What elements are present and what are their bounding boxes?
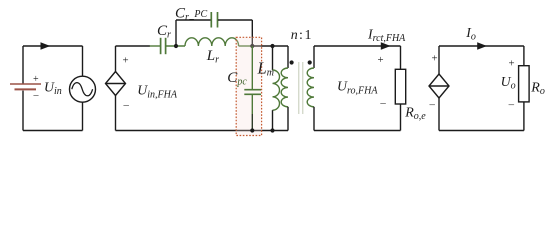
capacitor Cpc branch lower [251,95,253,114]
wire loop2 left upper [115,46,117,72]
dependent source diamond U_in,FHA [106,72,126,96]
arrow Irct,FHA [381,42,391,50]
transformer primary winding [281,68,288,107]
AC source sine wave [72,83,93,96]
transformer primary connector top [287,46,289,68]
transformer polarity dot primary [290,60,294,64]
svg-text:+: + [33,74,39,85]
dependent source diamond output [429,74,449,98]
parallel branch top wire left [176,19,211,21]
transformer secondary winding [307,68,314,107]
capacitor Cpc branch upper [251,46,253,89]
svg-text:–: – [379,97,386,109]
inductor Lm branch lower [272,110,274,130]
wire loop1 right lower [82,102,84,130]
wire loop1 bottom [23,130,83,132]
wire loop1 top [23,45,83,47]
resistor Ro [519,66,530,102]
wire green Lr to node [239,45,253,47]
battery DC source Uin [10,84,41,89]
svg-text:–: – [33,90,40,101]
AC source circle [70,76,96,102]
wire node to transformer [252,45,288,47]
wire loop2 top black segment [116,45,151,47]
transformer polarity dot secondary [308,60,312,64]
inductor Lm branch upper [272,46,274,70]
arrow current direction loop1 [41,42,51,50]
wire loop1 left upper [22,46,24,84]
svg-text:+: + [378,54,384,66]
capacitor Cr_PC [211,12,217,28]
wire secondary loop top [314,45,401,47]
transformer core lines [299,62,303,114]
wire right loop bottom [439,130,524,132]
capacitor Cr [161,38,166,54]
svg-text:–: – [508,99,515,111]
wire secondary bottom [314,130,401,132]
transformer secondary connector top [313,46,315,68]
wire right loop right upper [523,46,525,66]
svg-text:+: + [123,55,129,67]
capacitor Cpc plates [244,90,261,95]
node dot Lm top [270,44,274,48]
dashed box around Cpc [236,37,261,135]
node dot Lm bottom [270,128,274,132]
transformer secondary connector bottom [313,107,315,131]
svg-text:+: + [432,53,438,65]
node junction dot right [250,44,254,48]
transformer primary connector bottom [287,107,289,131]
svg-text:–: – [429,99,436,111]
svg-text:n:1: n:1 [291,28,312,43]
wire secondary right lower [400,104,402,131]
svg-text:–: – [123,99,130,111]
wire green Cr to Lr [166,45,185,47]
wire right loop top [439,45,524,47]
wire loop1 right upper [82,46,84,76]
wire green before Cr [150,45,161,47]
wire right loop left lower [438,98,440,131]
svg-text:+: + [509,58,515,70]
wire secondary right upper [400,46,402,69]
wire right loop left upper [438,46,440,74]
inductor Lm coil [273,70,280,110]
arrow Io [477,42,487,50]
parallel branch left riser [175,20,177,46]
wire loop2 left lower [115,96,117,131]
parallel branch right riser [251,20,253,46]
wire loop1 left lower [22,91,24,131]
resistor Ro,e [395,69,405,104]
parallel branch top wire right [218,19,252,21]
node dot Cpc bottom [250,128,254,132]
node junction dot left [174,44,178,48]
wire loop2 bottom rail [116,130,289,132]
wire right loop right lower [523,102,525,131]
inductor Lr [185,38,239,46]
